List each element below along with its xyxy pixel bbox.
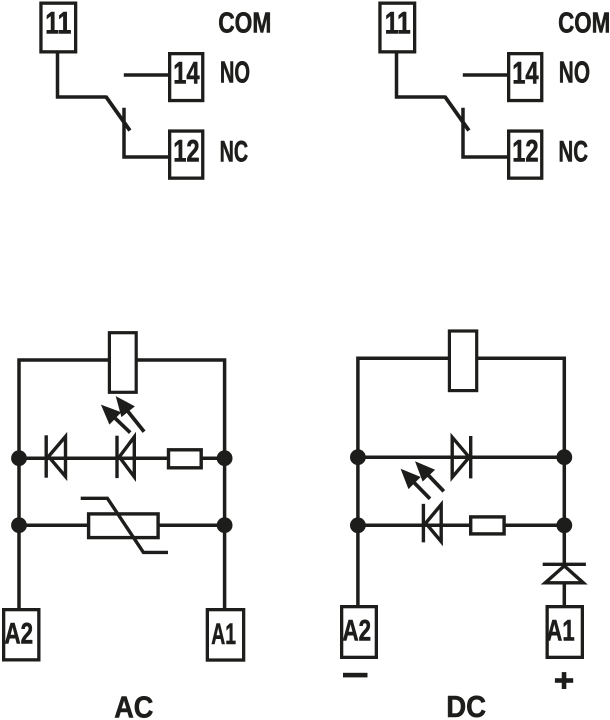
terminal box 11 [380, 3, 415, 52]
wire DC freewheel diode row [358, 455, 564, 459]
minus polarity mark [343, 673, 368, 678]
coil K1 (DC relay coil) [449, 331, 476, 391]
LED D2 (AC indicator) [115, 436, 118, 478]
wire DC right branch coil to protection diode [478, 358, 565, 564]
coil K1 (AC relay coil) [109, 333, 136, 393]
svg-text:14: 14 [173, 56, 200, 91]
junction dot AC row2 right [217, 517, 233, 533]
diode D5 cathode bar (reverse polarity protection) [543, 563, 586, 566]
junction dot AC row2 left [11, 517, 27, 533]
terminal box A2 (AC) [4, 610, 39, 660]
svg-text:A2: A2 [343, 614, 372, 647]
terminal box 14 [170, 54, 203, 101]
contact armature (changeover switch) [445, 96, 469, 130]
contact armature (changeover switch) [106, 96, 130, 130]
svg-text:A2: A2 [5, 617, 34, 650]
svg-text:12: 12 [512, 134, 538, 169]
svg-text:COM: COM [558, 7, 610, 39]
svg-text:NC: NC [559, 136, 589, 168]
wire DC left branch A2 to coil [358, 358, 448, 605]
svg-text:12: 12 [173, 134, 199, 169]
diode D3 (DC freewheeling) [469, 436, 472, 478]
wire NO stub to terminal 14 [124, 73, 169, 77]
LED emission arrows (AC) [101, 405, 121, 425]
svg-text:11: 11 [385, 5, 411, 40]
plus polarity mark [555, 678, 573, 683]
wire AC left branch A2 to coil [19, 360, 108, 608]
junction dot DC row1 right [556, 449, 572, 465]
LED emission arrows (DC) [401, 469, 421, 489]
terminal box 12 [509, 131, 542, 178]
LED D4 (DC indicator) [422, 504, 425, 542]
svg-text:14: 14 [512, 56, 539, 91]
wire from COM terminal 11 to armature hinge [397, 53, 446, 97]
wire NO stub to terminal 14 [463, 73, 508, 77]
terminal box 14 [509, 54, 542, 101]
svg-text:NC: NC [220, 136, 248, 168]
svg-text:COM: COM [218, 7, 271, 39]
svg-text:DC: DC [446, 689, 486, 720]
resistor R1 (AC series) [169, 450, 202, 468]
terminal box 12 [170, 131, 203, 178]
terminal box A1 (AC) [207, 610, 243, 660]
terminal box A1 (DC) [547, 607, 582, 658]
junction dot AC row1 right [217, 450, 233, 466]
wire DC LED row [358, 524, 564, 528]
diode D5 triangle [545, 566, 583, 583]
wire AC indicator row [19, 456, 225, 460]
terminal box A2 (DC) [342, 607, 377, 658]
wire AC right branch coil to A1 [137, 360, 224, 608]
wire DC protection diode to A1 [563, 583, 567, 605]
junction dot AC row1 left [11, 450, 27, 466]
junction dot DC row2 right [556, 517, 572, 533]
junction dot DC row1 left [350, 449, 366, 465]
resistor R2 (DC series) [471, 517, 504, 534]
junction dot DC row2 left [350, 517, 366, 533]
wire AC varistor row [19, 523, 225, 527]
svg-text:A1: A1 [211, 618, 236, 651]
svg-text:11: 11 [45, 5, 71, 40]
terminal box 11 [41, 3, 76, 52]
wire NC branch to terminal 12 [463, 108, 508, 157]
wire NC branch to terminal 12 [124, 108, 169, 157]
varistor RV1 diagonal stroke [81, 498, 168, 552]
svg-text:NO: NO [559, 55, 590, 90]
svg-text:A1: A1 [546, 614, 574, 647]
wire from COM terminal 11 to armature hinge [58, 53, 107, 97]
svg-text:NO: NO [220, 55, 250, 90]
diode D1 (AC anti-parallel) [45, 435, 48, 477]
varistor RV1 body [89, 514, 159, 538]
svg-text:AC: AC [114, 690, 153, 720]
